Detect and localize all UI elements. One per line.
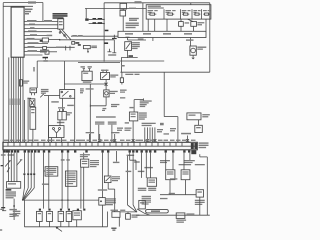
wire vertical x177.9 xyxy=(177,117,179,143)
pin X mark3 xyxy=(132,139,135,141)
coil label2 xyxy=(110,93,115,94)
pin label xyxy=(10,140,15,141)
wire y23.6 xyxy=(89,23,105,25)
wire label top mid xyxy=(135,1,142,3)
voltage regulator stubs xyxy=(103,70,107,73)
EDIS label right r4 xyxy=(139,118,145,119)
wire label xyxy=(138,38,144,39)
sensor C inner dash2 xyxy=(31,112,34,113)
wire x83.7 upper xyxy=(83,153,85,160)
pad xyxy=(136,150,138,152)
label below bar left xyxy=(1,154,6,155)
wire into relay xyxy=(44,95,60,97)
EDIS label box xyxy=(45,167,58,176)
bundle pad a xyxy=(23,173,25,175)
cluster text row4 xyxy=(6,197,14,198)
switch S1 diagonal xyxy=(5,161,10,167)
pad xyxy=(149,150,151,152)
wire fuse feed y21 xyxy=(24,20,58,22)
pad below bar xyxy=(3,150,5,152)
TFI inner dash xyxy=(82,161,88,162)
fuse panel divider 3 xyxy=(191,9,193,19)
wire bundle x11.4 xyxy=(10,57,12,142)
wire label xyxy=(28,50,38,51)
pin label xyxy=(70,140,75,141)
wire x148 through xyxy=(147,19,149,31)
service loop xyxy=(146,210,169,213)
wire x184 down xyxy=(183,153,185,170)
wire bus riser xyxy=(107,212,109,227)
wire vertical x86 xyxy=(85,9,87,19)
fuse F3 glyph xyxy=(182,13,189,15)
fuse panel divider 1 xyxy=(163,9,165,19)
pad xyxy=(188,150,190,152)
pad xyxy=(34,150,36,152)
switch S2 tick xyxy=(20,159,22,161)
label 4L trans xyxy=(184,160,195,161)
fuse label right2 xyxy=(23,82,28,83)
label C30b xyxy=(102,110,105,111)
pad xyxy=(17,150,19,152)
hazard inner label xyxy=(128,55,133,57)
ground T near x127 xyxy=(126,37,130,40)
harness pad row e xyxy=(77,209,79,211)
relay contact xyxy=(61,91,63,93)
sensor inner dash xyxy=(74,212,80,213)
wire y72.2 long xyxy=(120,71,209,73)
ignition switch label row2 xyxy=(53,15,68,17)
fuse body xyxy=(120,78,123,83)
EEC row4 xyxy=(67,179,76,180)
right bus y215.2 xyxy=(136,214,210,216)
wire label xyxy=(93,18,97,19)
coil pack label right2 xyxy=(67,114,70,115)
pin label xyxy=(22,140,27,141)
wire x24.4 upper xyxy=(23,100,25,142)
wire below cluster xyxy=(13,199,15,220)
pin label xyxy=(34,140,39,141)
engine compartment left edge xyxy=(63,61,65,90)
junction dot xyxy=(59,39,61,41)
ground bars bottom xyxy=(111,228,116,229)
ground label xyxy=(0,209,2,210)
bundle pad c xyxy=(30,173,32,175)
ground stem x114 xyxy=(113,40,115,53)
pin wire d xyxy=(151,127,153,142)
TFI inner dash2 xyxy=(82,163,88,164)
bundle wire d lower xyxy=(33,175,35,188)
EDIS inner dash2 xyxy=(131,116,136,117)
relay K3 small box xyxy=(45,51,49,54)
knock sensor label r4 xyxy=(142,202,151,203)
EEC row3 xyxy=(67,177,76,178)
wire jog right xyxy=(200,156,208,158)
EDIS wire vertical xyxy=(133,100,135,112)
fuse F2 label2 xyxy=(172,10,175,11)
C140 label above bar xyxy=(181,133,191,135)
distributor stubs xyxy=(52,138,62,143)
bar end label r3 xyxy=(199,147,207,148)
pin wire c xyxy=(149,127,151,142)
loop label xyxy=(151,210,160,212)
wire y47.3 xyxy=(24,46,43,48)
hazard labels4 xyxy=(132,48,138,49)
pad xyxy=(38,150,40,152)
battery label xyxy=(83,81,92,82)
wire y194.7 xyxy=(160,194,196,196)
connector C137 label pair1 row2 xyxy=(95,123,104,124)
pin label xyxy=(41,140,46,141)
pin label xyxy=(170,140,175,141)
fuse panel box xyxy=(146,5,211,19)
junction dot xyxy=(13,205,15,207)
pin label extra xyxy=(182,140,186,141)
battery terminal label2 xyxy=(88,66,92,67)
hazard drop wire xyxy=(126,50,128,57)
label A/C xyxy=(78,35,83,36)
label left xyxy=(160,198,168,199)
harness pad row a xyxy=(39,209,41,211)
instrument cluster box xyxy=(7,182,21,189)
relay A dash xyxy=(167,171,174,172)
cluster label below xyxy=(6,189,12,191)
bar end label r1 xyxy=(199,142,209,143)
small box below 4x4 xyxy=(195,125,203,132)
wire vertical x164.2 xyxy=(163,72,165,116)
cam label r4 xyxy=(106,204,113,205)
wire x189.9 down xyxy=(189,153,191,160)
braid diagonal c xyxy=(137,209,145,213)
wire label xyxy=(29,24,35,25)
label right of boxes xyxy=(129,8,136,9)
wire x181 upper xyxy=(180,19,182,22)
pin X mark4 xyxy=(146,139,149,141)
wire stub to top bus xyxy=(122,2,124,5)
relay label below xyxy=(51,101,59,102)
wire below chain xyxy=(32,129,34,142)
pin label xyxy=(126,140,131,141)
pin group label a1 xyxy=(117,128,123,129)
4x4 label right2 xyxy=(202,116,208,117)
label x120 y89 xyxy=(120,90,127,91)
relay contact2 xyxy=(70,96,72,98)
label mid xyxy=(144,167,153,168)
fuse F1 body xyxy=(150,13,155,15)
sensor A ticks xyxy=(32,93,35,96)
bundle wire a lower xyxy=(23,175,25,188)
oil stub xyxy=(127,212,129,214)
wire below label pair1 xyxy=(98,125,100,143)
sensor box A xyxy=(30,88,37,93)
EDIS box row2 xyxy=(46,170,56,171)
wire C140 to bar xyxy=(186,136,188,143)
ignition switch label row3 xyxy=(53,17,64,18)
wire label xyxy=(27,20,37,21)
fuel pump label r3 xyxy=(195,204,203,205)
label row xyxy=(129,18,139,19)
vertical wire label3 xyxy=(13,99,16,106)
oxygen label left xyxy=(138,188,147,189)
injector I1 xyxy=(37,211,43,221)
coil pack label above xyxy=(58,107,65,108)
knock sensor label r3 xyxy=(142,200,151,201)
fusible link label2 xyxy=(91,47,97,48)
EEC row6 xyxy=(67,183,74,184)
label below bar left2 xyxy=(8,154,15,155)
connector arrow xyxy=(87,51,89,53)
wire bar end drop xyxy=(199,154,201,157)
wire stub between boxes xyxy=(122,9,124,10)
bundle braid diagonal b xyxy=(23,188,28,199)
injector I3 xyxy=(58,211,63,221)
pad xyxy=(85,150,87,152)
fuse panel divider 4 xyxy=(201,9,203,19)
EDIS wire horiz xyxy=(134,99,143,101)
EDIS label row2 xyxy=(140,102,149,103)
wire label under y72 xyxy=(125,74,133,75)
TFI label right r1 xyxy=(90,160,99,161)
label C110 xyxy=(129,107,133,108)
crank sensor box xyxy=(112,212,120,218)
pin group label b1 xyxy=(125,128,132,129)
junction dot xyxy=(103,19,104,20)
ground G1 mark on border xyxy=(1,165,4,166)
label block dark xyxy=(40,50,49,51)
pin label xyxy=(62,140,67,141)
accessory label xyxy=(47,35,53,37)
EDIS label below left xyxy=(125,122,129,123)
cluster inner dash xyxy=(8,183,16,184)
node label block right of box top xyxy=(25,9,33,11)
inertia switch box xyxy=(176,213,185,219)
wire y19.4 xyxy=(89,18,105,20)
sensor box B xyxy=(30,99,35,107)
label mid2 xyxy=(126,171,132,172)
bundle wire a xyxy=(23,153,25,174)
hazard labels3 xyxy=(132,46,140,47)
wire below sensor xyxy=(76,220,78,227)
wire x90 label xyxy=(86,88,94,89)
TFI box xyxy=(81,159,89,167)
fuse F2 label3 xyxy=(166,12,170,13)
injector I4 dash xyxy=(67,213,70,214)
vertical wire label4 xyxy=(16,99,19,106)
fuse F4 label3 xyxy=(193,12,196,13)
junction block dark xyxy=(85,18,88,20)
pin label xyxy=(56,140,61,141)
accessory box xyxy=(42,38,48,42)
switch contact xyxy=(59,32,61,34)
label 4L trans row2 xyxy=(184,162,193,163)
harness pad row b xyxy=(48,209,50,211)
wire x173 down xyxy=(172,153,174,170)
wire vertical x142.9 xyxy=(142,3,144,32)
wire label xyxy=(56,47,65,48)
starter relay text left2 xyxy=(41,91,49,92)
fuse F3 label3 xyxy=(182,12,185,13)
wire end tick xyxy=(89,105,91,107)
pin wire a xyxy=(144,127,146,142)
4x4 control box xyxy=(187,113,201,120)
fusible link box xyxy=(83,46,90,49)
pad extra xyxy=(6,150,8,152)
wire x108.2 down xyxy=(107,153,109,176)
relay K1 blob xyxy=(40,40,43,42)
pin group label d1 xyxy=(164,133,170,134)
wire x141.6 down xyxy=(141,153,143,178)
label row y164 b xyxy=(195,164,205,165)
4x4 label right xyxy=(202,114,210,115)
wire x129.7 step xyxy=(130,153,136,170)
wire x165.7 down xyxy=(165,153,167,170)
oxygen sensor inner dash xyxy=(149,180,156,181)
wire below coil xyxy=(105,97,107,106)
vertical wire label xyxy=(9,99,12,106)
EDIS module box xyxy=(129,112,137,121)
wire vertical from top bus xyxy=(42,3,44,22)
wire stub xyxy=(87,49,89,51)
relay K2 small box xyxy=(43,47,47,50)
connector C137 label pair1 xyxy=(95,122,104,123)
vertical wire label5 xyxy=(18,99,21,106)
distributor inner Y xyxy=(54,130,60,138)
injector I1 dash xyxy=(38,213,41,214)
EDIS inner dash xyxy=(131,114,136,115)
fuse F2 label xyxy=(166,10,172,11)
cluster text row2 xyxy=(6,193,16,194)
wire y35.5 xyxy=(24,35,50,37)
bus box inner dash3 xyxy=(163,33,171,35)
EDIS label right r1 xyxy=(139,112,147,113)
EDIS label row3 xyxy=(140,104,147,105)
bar mid line xyxy=(3,145,197,147)
pin group label b2 xyxy=(125,130,131,131)
wire left border xyxy=(2,3,4,211)
bundle braid diagonal a xyxy=(23,188,25,200)
pad xyxy=(74,150,76,152)
label x120 y91 xyxy=(120,92,125,93)
EDIS bottom labels xyxy=(142,123,156,124)
wire below TFI b xyxy=(83,167,85,208)
wire label xyxy=(28,30,37,31)
relay B dash xyxy=(182,171,188,172)
sensor C inner dash xyxy=(31,109,34,110)
ign accessory small box xyxy=(72,42,75,45)
label BLK xyxy=(185,22,190,23)
cam label r3 xyxy=(106,202,116,203)
long connector label row xyxy=(96,116,116,117)
wire label left xyxy=(42,184,49,185)
injector I3 dash xyxy=(59,213,62,214)
wire left drop x37 xyxy=(36,61,38,88)
oil label2 xyxy=(132,216,138,217)
bundle wire d xyxy=(33,153,35,174)
wire bundle x21 xyxy=(20,57,22,142)
wire y54.8 xyxy=(24,54,42,56)
wire label xyxy=(186,39,194,40)
relay diagonal xyxy=(62,91,69,97)
fuel pump relay box B xyxy=(181,170,190,180)
bundle wire c lower xyxy=(30,175,32,188)
EEC text box xyxy=(65,171,76,186)
cluster feed wire b xyxy=(10,153,12,182)
fuel pump inner dash xyxy=(197,191,202,192)
wire jog y116.6 xyxy=(164,116,178,118)
label mid3 xyxy=(138,171,145,172)
label A140 xyxy=(160,160,170,161)
bar end dark pad2 xyxy=(194,143,197,149)
regulator label above xyxy=(101,70,109,71)
harness pad row d xyxy=(68,209,70,211)
pad xyxy=(8,150,10,152)
oxygen label right block xyxy=(148,188,156,189)
oxygen sensor inner dash2 xyxy=(149,182,156,183)
pin label xyxy=(176,140,181,141)
starter relay text left xyxy=(41,89,49,90)
fusible link label xyxy=(91,46,97,47)
relay B dash2 xyxy=(182,173,188,174)
pad xyxy=(24,150,26,152)
small box inner dash xyxy=(196,127,201,128)
bundle wire b xyxy=(27,153,29,174)
pin label extra xyxy=(93,140,98,141)
cluster feed wire d xyxy=(16,153,18,182)
labels above box3 row2 xyxy=(80,156,88,157)
switch S1 tick xyxy=(9,160,11,162)
pad xyxy=(154,150,156,152)
oil label xyxy=(132,215,140,216)
EDIS label row1 xyxy=(140,100,152,101)
fuse F1 glyph xyxy=(148,13,156,15)
fuse F4 label2 xyxy=(198,10,201,11)
wire x150.5 down xyxy=(150,153,152,178)
sensor box C tall xyxy=(30,107,36,129)
pin label xyxy=(120,140,125,141)
EDIS label right r2 xyxy=(139,114,147,115)
fuse F5 glyph xyxy=(203,13,210,15)
pin label xyxy=(191,140,196,141)
bundle pad b xyxy=(27,173,29,175)
regulator label right2 xyxy=(110,76,116,77)
ground G2 on border xyxy=(1,207,5,208)
wire label xyxy=(169,193,175,194)
wire below cam sensor xyxy=(102,205,104,227)
fuse F1 label3 xyxy=(148,12,152,13)
wire y40 stub xyxy=(128,39,147,41)
TFI label right r4 xyxy=(90,166,97,167)
fuse panel title xyxy=(148,6,161,7)
motor label xyxy=(197,47,206,48)
relay A dash2 xyxy=(167,173,174,174)
wire x133.1 down xyxy=(132,153,134,205)
pin X mark xyxy=(98,139,101,141)
coil circle xyxy=(105,92,108,95)
fuse F4 glyph xyxy=(194,13,201,15)
wire x193.6 lower xyxy=(193,26,195,31)
junction dot y200 b xyxy=(67,199,69,201)
pad xyxy=(101,150,103,152)
wire relay A down xyxy=(169,180,171,195)
switch S2 diagonal xyxy=(17,160,22,166)
node label block row2 xyxy=(25,11,31,13)
pin X mark6 xyxy=(186,139,189,141)
left text block bottom xyxy=(13,211,20,212)
bundle braid diagonal c xyxy=(23,188,31,200)
pin group label a2 xyxy=(117,130,122,131)
hazard labels xyxy=(132,42,140,43)
EEC row1 xyxy=(67,173,76,174)
wire y47.3 continuation xyxy=(47,46,75,48)
